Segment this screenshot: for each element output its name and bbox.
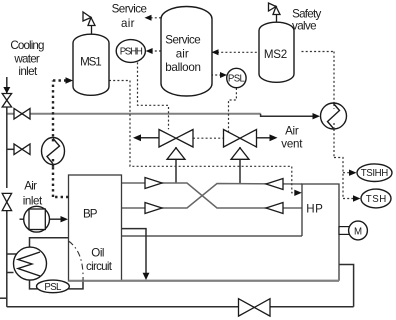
svg-text:Air: Air (285, 125, 299, 138)
svg-text:MS2: MS2 (264, 48, 287, 61)
svg-text:valve: valve (292, 20, 317, 33)
svg-text:HP: HP (306, 203, 323, 216)
svg-text:Service: Service (112, 2, 147, 15)
svg-text:air: air (121, 17, 135, 30)
svg-text:M: M (354, 226, 362, 237)
svg-text:water: water (13, 53, 40, 66)
svg-text:Safety: Safety (292, 7, 321, 20)
svg-text:inlet: inlet (18, 65, 38, 78)
svg-text:BP: BP (83, 208, 98, 221)
svg-text:Service: Service (165, 34, 200, 47)
svg-text:MS1: MS1 (80, 55, 102, 68)
svg-text:Oil: Oil (91, 247, 104, 260)
svg-text:inlet: inlet (23, 195, 43, 208)
svg-text:PSL: PSL (228, 73, 246, 84)
svg-text:PSL: PSL (44, 282, 62, 293)
svg-text:balloon: balloon (165, 61, 201, 74)
svg-text:TSIHH: TSIHH (361, 168, 389, 179)
svg-text:vent: vent (281, 138, 303, 151)
svg-text:air: air (176, 47, 189, 60)
svg-text:TSH: TSH (366, 194, 387, 205)
svg-text:Air: Air (24, 180, 37, 193)
svg-text:Cooling: Cooling (10, 39, 44, 52)
svg-text:circuit: circuit (86, 260, 113, 273)
svg-text:PSHH: PSHH (120, 46, 143, 57)
